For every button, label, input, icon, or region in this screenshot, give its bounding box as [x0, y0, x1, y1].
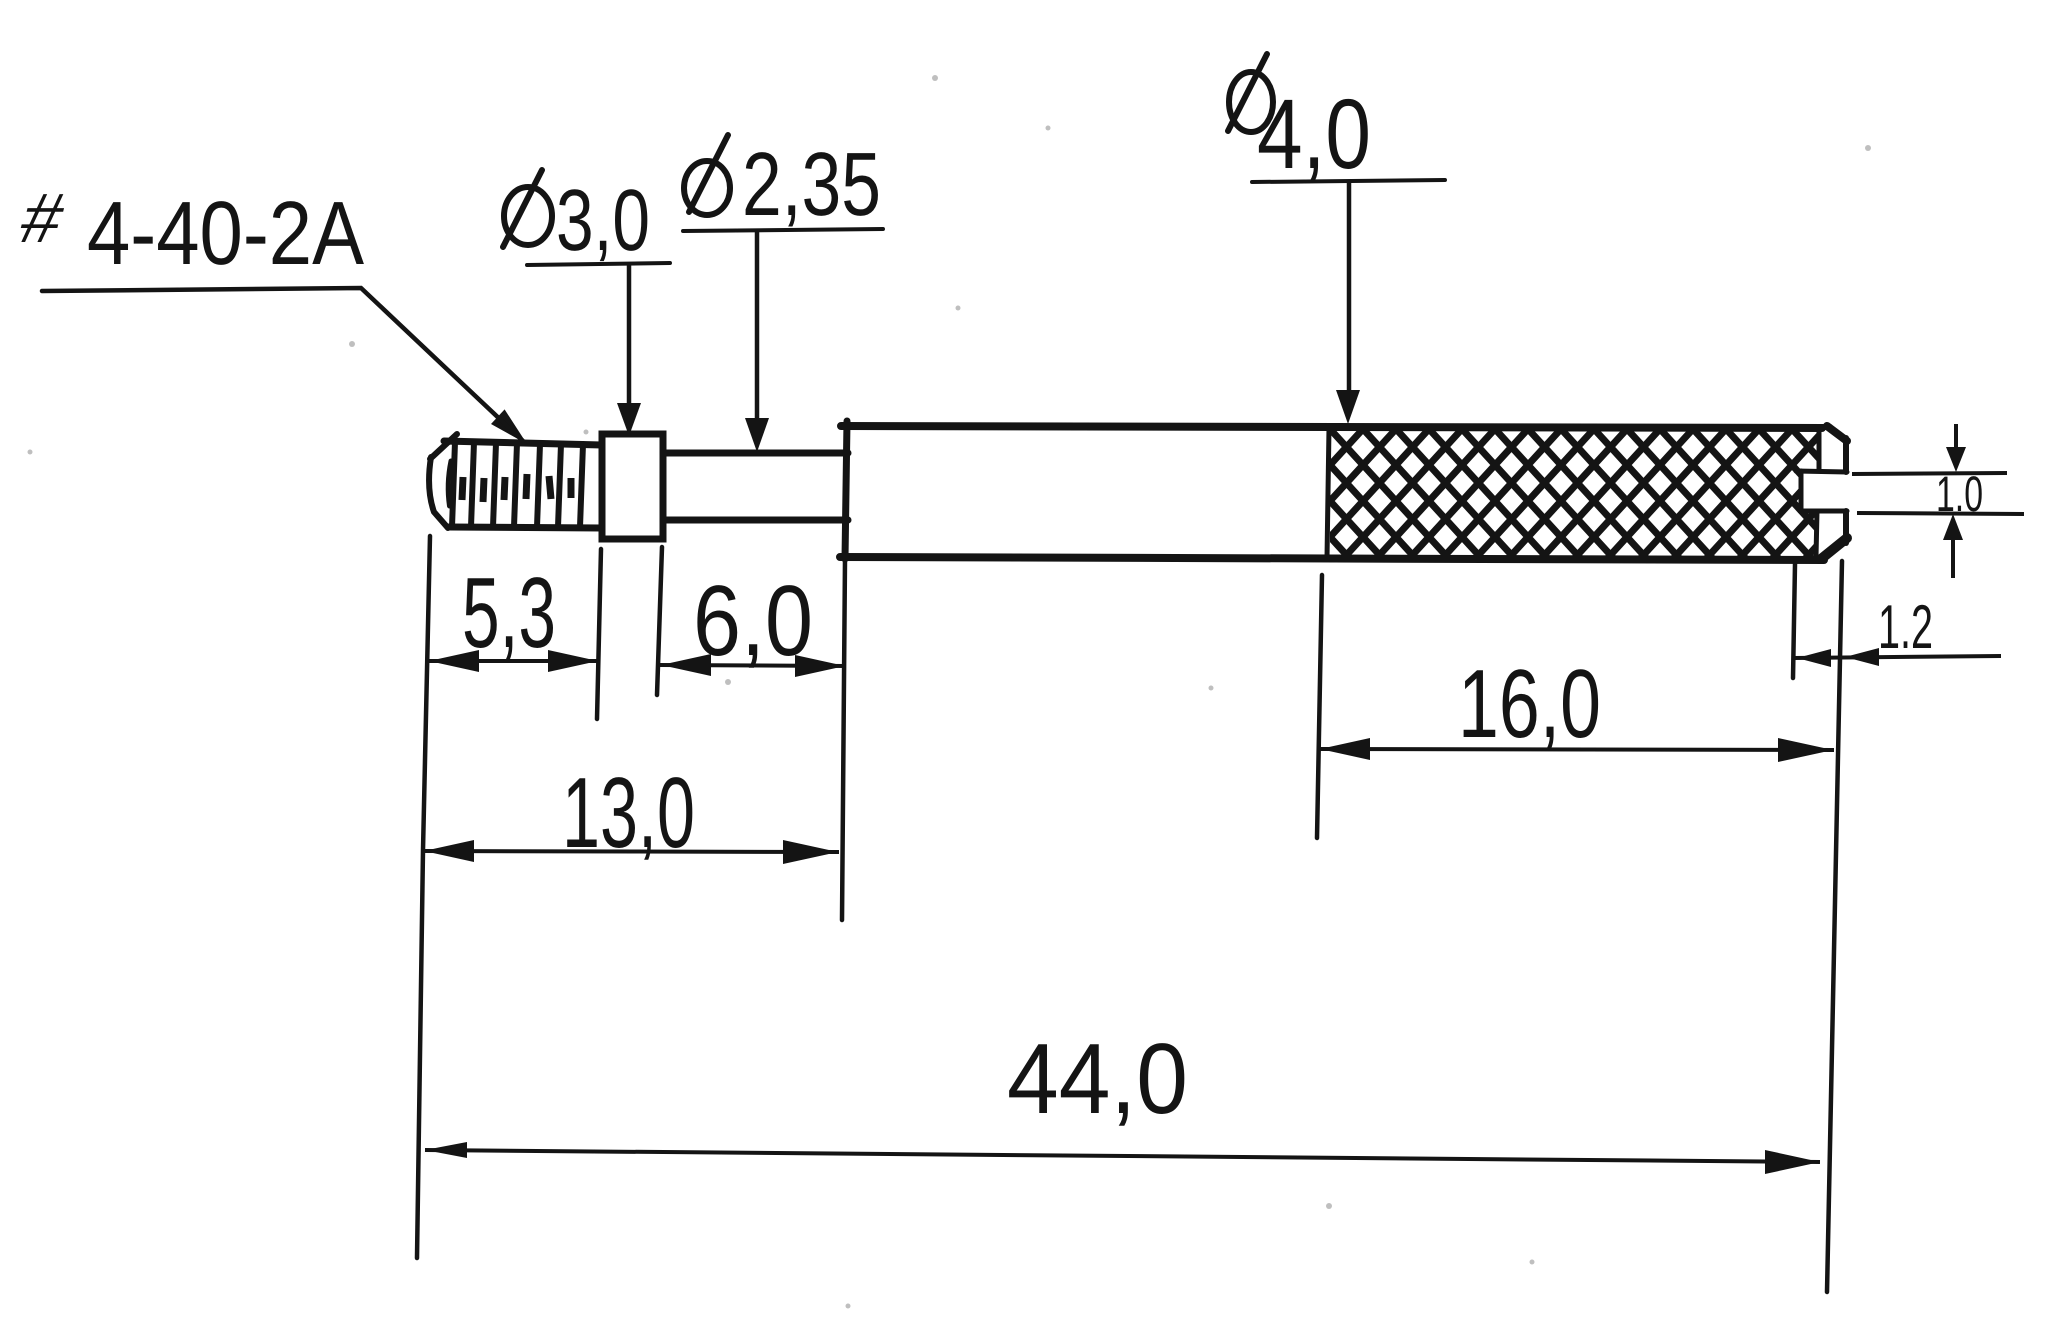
svg-text:16,0: 16,0 [1458, 649, 1601, 758]
svg-text:5,3: 5,3 [462, 557, 556, 669]
svg-text:1.2: 1.2 [1878, 593, 1933, 662]
svg-text:4,0: 4,0 [1257, 78, 1371, 189]
svg-text:44,0: 44,0 [1007, 1023, 1188, 1135]
svg-text:1.0: 1.0 [1936, 466, 1983, 522]
svg-text:3,0: 3,0 [556, 172, 650, 269]
svg-text:13,0: 13,0 [562, 757, 695, 869]
svg-text:6,0: 6,0 [693, 565, 813, 677]
svg-text:2,35: 2,35 [742, 135, 881, 235]
svg-text:4-40-2A: 4-40-2A [87, 184, 364, 284]
